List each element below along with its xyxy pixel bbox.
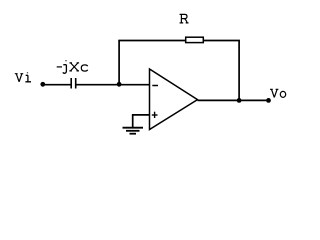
node A junction dot (117, 82, 122, 87)
ground (123, 127, 144, 129)
node Vi terminal dot (40, 82, 45, 87)
op-amp U1 triangle (150, 69, 198, 130)
resistor R box (186, 37, 204, 42)
wire feedback top left segment (118, 40, 185, 42)
op-amp plus sign (152, 114, 158, 116)
node output junction dot (237, 98, 242, 103)
op-amp minus sign (152, 85, 158, 87)
capacitor value label -jXc (57, 60, 88, 73)
resistor label R (180, 14, 189, 23)
wire feedback left vertical (118, 41, 120, 85)
wire node A to op-amp inverting input (119, 84, 150, 86)
wire op-amp output to Vo (198, 99, 269, 101)
capacitor C (-jXc) plates (70, 78, 72, 89)
wire feedback top right segment (204, 40, 240, 42)
wire feedback right vertical (238, 41, 240, 101)
wire Vi to capacitor (43, 84, 71, 86)
wire capacitor to node A (76, 84, 119, 86)
node Vi label (15, 72, 31, 81)
node Vo label (270, 89, 286, 97)
wire non-inverting input to ground (133, 115, 150, 127)
node Vo terminal dot (266, 98, 271, 103)
